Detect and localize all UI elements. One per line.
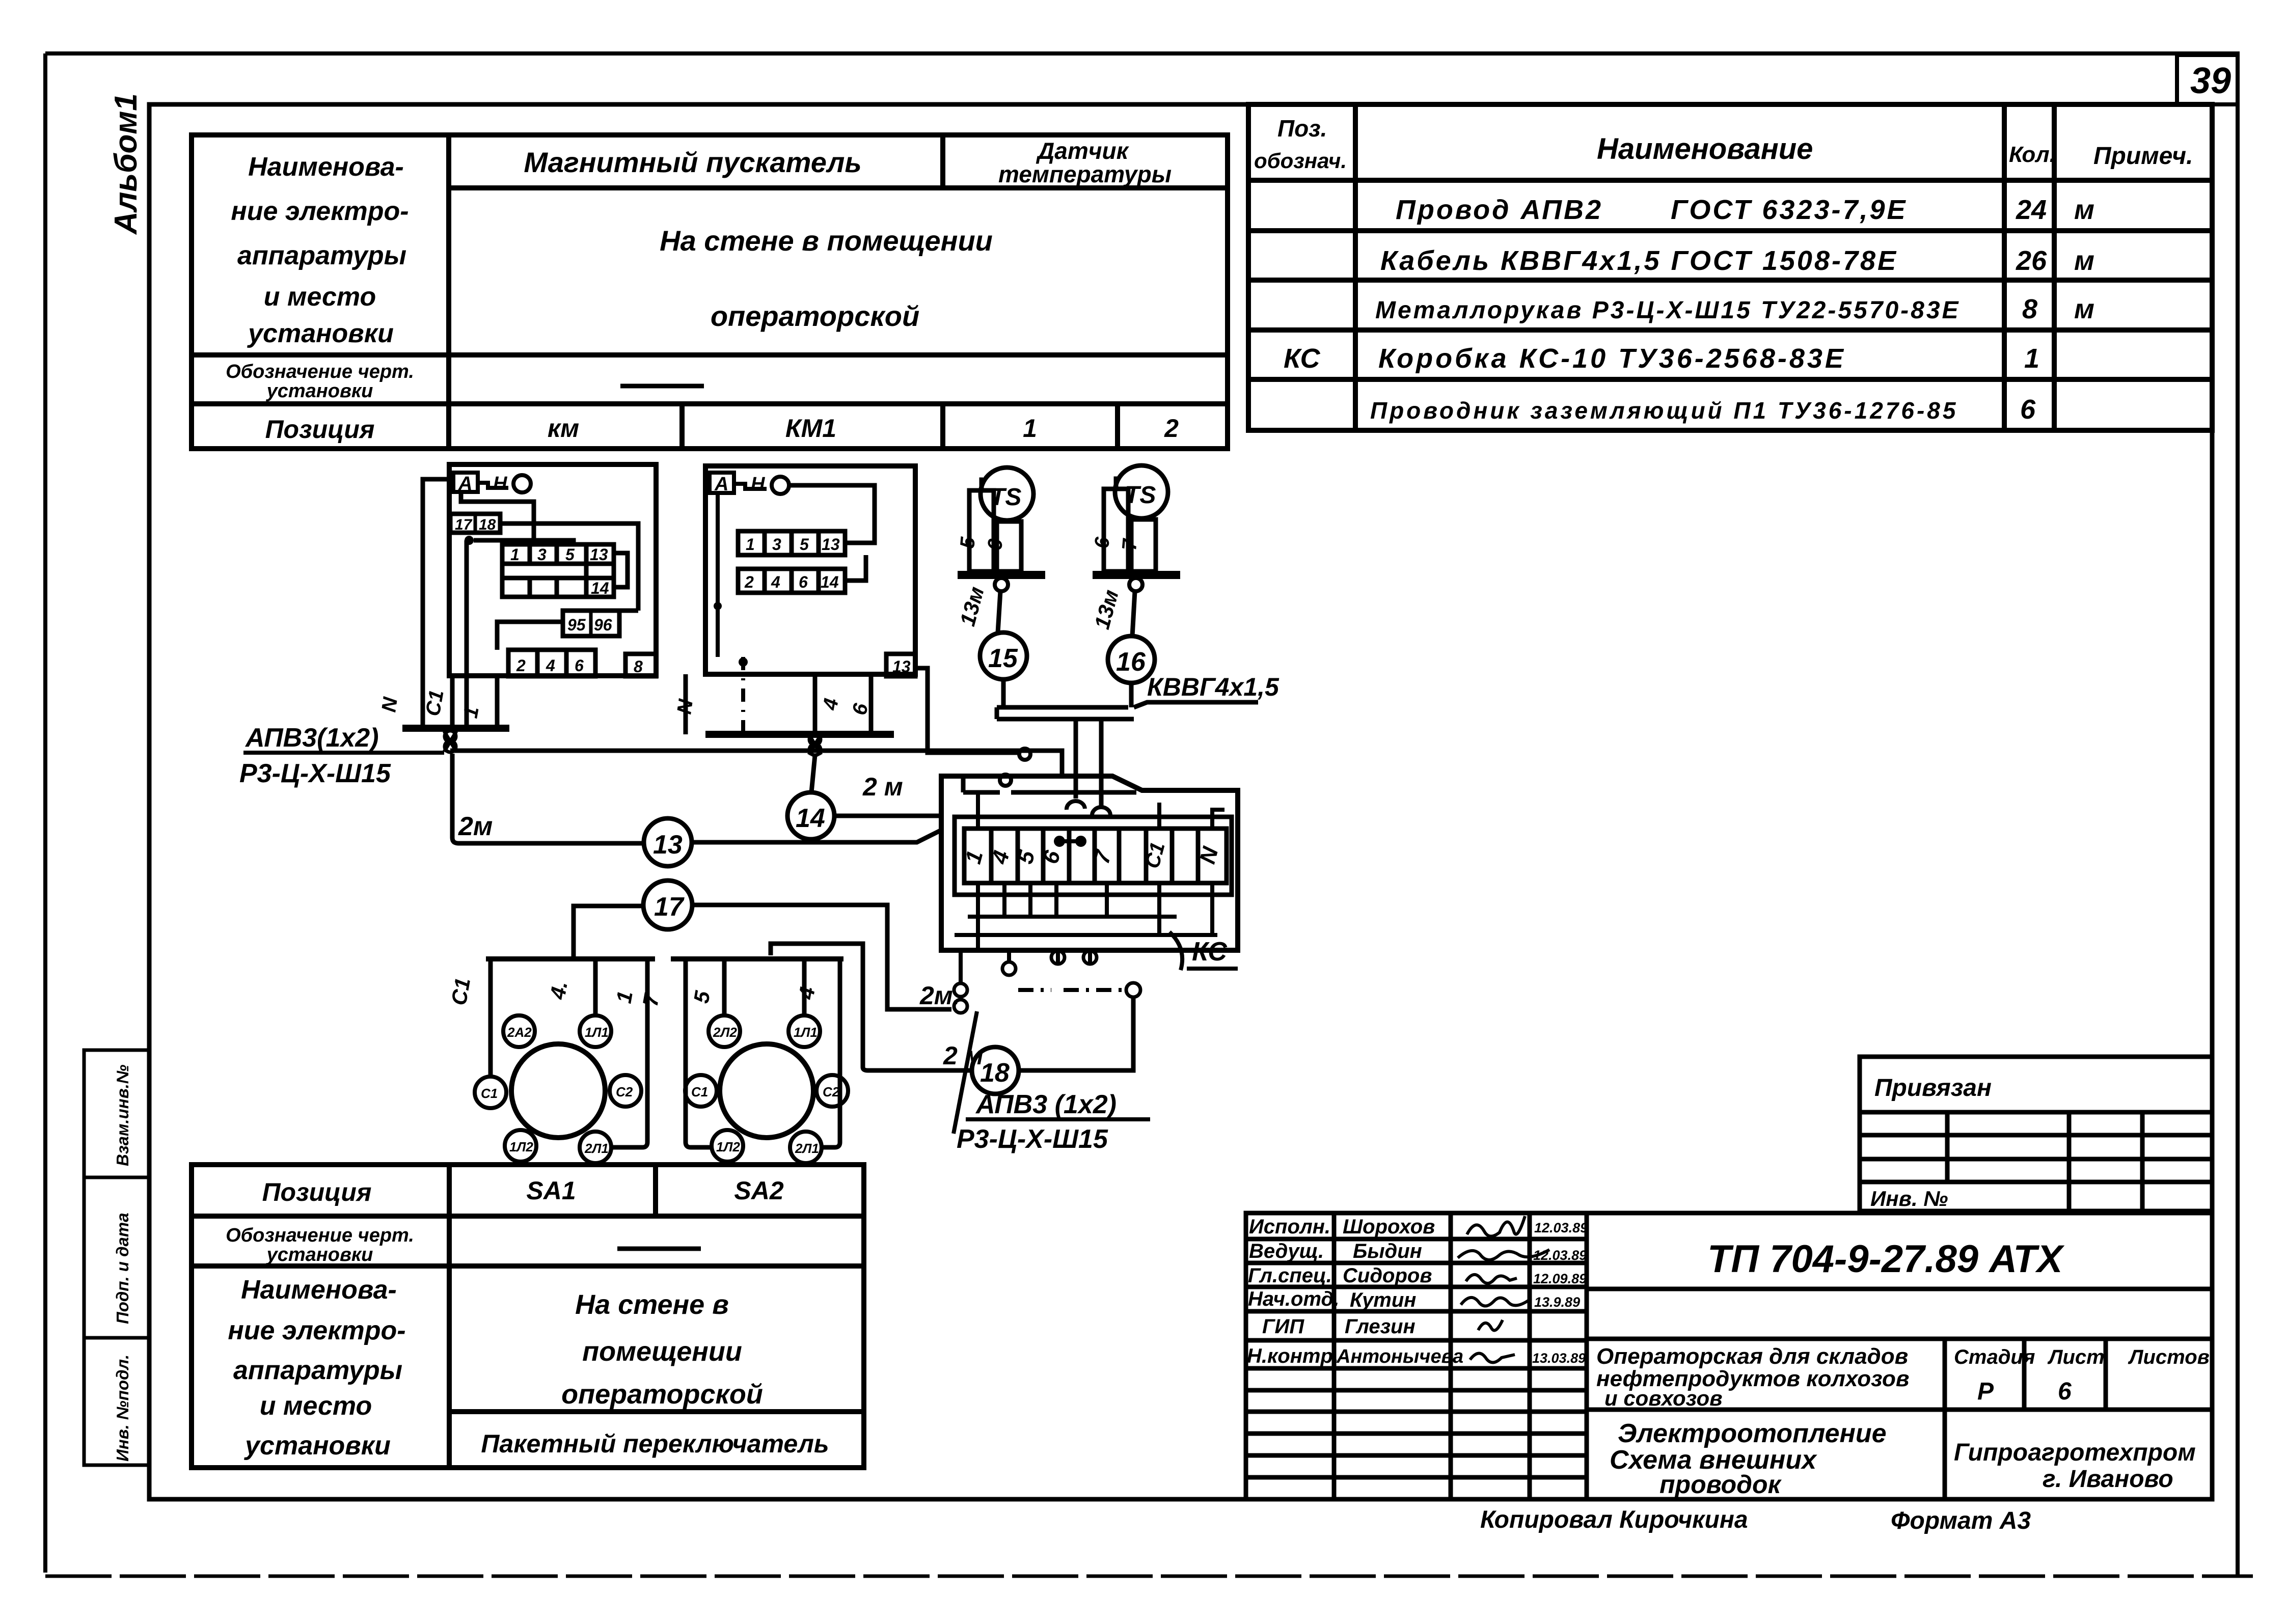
svg-text:13: 13 (590, 545, 608, 564)
svg-text:Р: Р (1977, 1378, 1994, 1405)
svg-text:КС: КС (1284, 343, 1320, 374)
svg-text:13: 13 (822, 535, 840, 554)
svg-text:2: 2 (744, 573, 754, 591)
terminal C1 (SA2) (685, 1075, 717, 1107)
svg-text:Операторская для складов: Операторская для складов (1596, 1344, 1908, 1369)
svg-text:4: 4 (771, 573, 780, 591)
terminal 2L1 (SA2) (790, 1132, 822, 1163)
svg-text:2: 2 (516, 656, 526, 675)
svg-text:Электроотопление: Электроотопление (1618, 1419, 1887, 1448)
wire (drop to marker 13) (452, 754, 644, 843)
svg-text:установки: установки (247, 319, 394, 348)
temperature sensor TS1 (981, 467, 1033, 520)
svg-text:г. Иваново: г. Иваново (2043, 1466, 2173, 1493)
svg-text:Инв. №подл.: Инв. №подл. (113, 1355, 132, 1462)
svg-text:Н: Н (751, 474, 766, 495)
svg-text:и место: и место (260, 1391, 372, 1421)
svg-text:Глезин: Глезин (1345, 1315, 1416, 1338)
svg-text:6: 6 (2058, 1378, 2072, 1405)
svg-text:Н: Н (493, 473, 508, 494)
svg-text:АПВ3 (1х2): АПВ3 (1х2) (975, 1090, 1117, 1119)
svg-text:проводок: проводок (1659, 1470, 1782, 1499)
svg-text:Лист: Лист (2047, 1346, 2105, 1368)
wire 13m (TS2 down) (1132, 591, 1135, 636)
svg-text:Инв. №: Инв. № (1870, 1187, 1948, 1210)
svg-text:Антонычева: Антонычева (1336, 1346, 1463, 1367)
wire (16 down) (1129, 683, 1134, 707)
terminal cell 8 (KM) (625, 654, 656, 676)
svg-text:14: 14 (796, 804, 825, 833)
svg-text:установки: установки (266, 1244, 373, 1265)
cable label APV3(1x2) R3-C-X-Sh15 (left) (239, 723, 444, 788)
svg-text:Кабель КВВГ4х1,5 ГОСТ 1508-78: Кабель КВВГ4х1,5 ГОСТ 1508-78Е (1380, 245, 1898, 276)
wire (13 to junction box) (692, 830, 941, 842)
svg-text:Датчик: Датчик (1036, 137, 1130, 164)
wire (14 to junction box) (834, 814, 941, 818)
svg-text:12.09.89: 12.09.89 (1533, 1271, 1587, 1286)
svg-text:Металлорукав Р3-Ц-Х-Ш15 ТУ22-5: Металлорукав Р3-Ц-Х-Ш15 ТУ22-5570-83Е (1375, 297, 1961, 324)
terminal strip 1-3-5-13 (KM1) (738, 531, 845, 555)
magnetic starter KM enclosure (449, 464, 656, 676)
marker 14 (wire run) (787, 792, 834, 839)
wire (KM1 drops to bus) (684, 674, 688, 734)
terminal strip 2-4-6 (KM) (508, 650, 595, 676)
svg-text:1: 1 (1023, 414, 1037, 443)
svg-text:С2: С2 (616, 1084, 633, 1099)
wire (SA2 drop 5) (722, 959, 727, 1014)
jumper (KC strip 6-7) (1056, 838, 1084, 845)
svg-text:м: м (2074, 195, 2094, 225)
wire (18 run left stub) (868, 1068, 972, 1073)
svg-text:А: А (714, 474, 728, 495)
node (KM internal) (465, 536, 474, 545)
wire (lamp to strip, KM1) (789, 485, 875, 543)
terminal A (KM) (453, 473, 478, 494)
junction box KC outline (941, 776, 1238, 950)
svg-text:обознач.: обознач. (1254, 149, 1347, 173)
svg-text:Взам.инв.№: Взам.инв.№ (113, 1064, 132, 1166)
jumper dash (KC bottom left) (1018, 988, 1051, 992)
svg-text:и место: и место (264, 282, 376, 312)
marker 17 (wire run) (643, 880, 692, 929)
terminal strip outline (KC) (955, 817, 1232, 895)
svg-text:39: 39 (2190, 61, 2231, 101)
svg-text:Пакетный переключатель: Пакетный переключатель (481, 1429, 829, 1458)
cable label APV3(1x2) at 18 (957, 1090, 1150, 1154)
cell labels (KC strip) (961, 840, 1223, 871)
wire (15 down) (1001, 679, 1006, 707)
svg-text:2А2: 2А2 (507, 1025, 532, 1040)
svg-text:13: 13 (892, 657, 911, 676)
conduit stub 6 (TS1) (997, 521, 1021, 571)
wire (drops into junction box) (1074, 719, 1078, 799)
wire (stub t3-t4) (1058, 950, 1090, 964)
terminal (KC bottom t4) (1083, 951, 1097, 964)
terminal 2L2 (SA2) (709, 1015, 740, 1047)
svg-text:2 м: 2 м (862, 773, 903, 801)
wire (SA1 top bus) (486, 956, 655, 961)
svg-text:13.9.89: 13.9.89 (1534, 1295, 1580, 1310)
wire (node to strip) (474, 540, 574, 544)
svg-text:Листов: Листов (2128, 1346, 2210, 1368)
svg-text:Магнитный пускатель: Магнитный пускатель (524, 146, 861, 178)
svg-text:24: 24 (2016, 195, 2047, 225)
leader line (cable callout) (954, 1011, 977, 1134)
terminal A (KM1) (710, 473, 734, 495)
svg-text:17: 17 (455, 516, 473, 533)
svg-text:ТS: ТS (990, 484, 1021, 511)
svg-text:Обозначение черт.: Обозначение черт. (226, 1225, 414, 1246)
terminal N (KM) (478, 473, 508, 494)
svg-text:Формат А3: Формат А3 (1891, 1507, 2031, 1534)
svg-text:С1: С1 (422, 689, 448, 718)
svg-text:Гипроагротехпром: Гипроагротехпром (1954, 1439, 2196, 1466)
terminal (KC bottom t1) (954, 983, 967, 1013)
svg-text:Гл.спец.: Гл.спец. (1248, 1264, 1332, 1287)
marker 15 (wire run) (980, 632, 1027, 679)
cable KVVG header run (997, 702, 1258, 719)
svg-text:6: 6 (575, 656, 584, 675)
svg-text:5: 5 (565, 545, 575, 564)
svg-text:2Л2: 2Л2 (713, 1025, 737, 1040)
svg-text:6: 6 (984, 538, 1007, 552)
terminal strip 1-3-5-13 / 14 (KM) (502, 544, 614, 597)
svg-text:4: 4 (546, 656, 555, 675)
svg-text:6: 6 (1091, 536, 1114, 549)
wire (SA1 left drop C1) (488, 959, 493, 1076)
svg-text:5: 5 (956, 536, 979, 549)
wire (KM internal top) (461, 492, 534, 544)
temperature sensor TS2 (1115, 465, 1168, 518)
svg-text:м: м (2074, 245, 2094, 276)
svg-text:14: 14 (821, 573, 839, 591)
svg-text:ТП 704-9-27.89 АТХ: ТП 704-9-27.89 АТХ (1707, 1237, 2065, 1281)
svg-text:17: 17 (654, 892, 685, 922)
wire (SA1 right drop 1) (612, 959, 647, 1147)
svg-text:18: 18 (479, 516, 496, 533)
svg-text:1Л2: 1Л2 (509, 1139, 533, 1154)
svg-text:Коробка КС-10 ТУ36-2568-83Е: Коробка КС-10 ТУ36-2568-83Е (1378, 343, 1846, 374)
conduit stub 6 (TS2) (1104, 489, 1128, 571)
svg-text:ние электро-: ние электро- (228, 1316, 405, 1345)
terminal (TS1 below wall) (995, 578, 1008, 591)
svg-text:Нач.отд.: Нач.отд. (1248, 1288, 1339, 1310)
svg-text:КВВГ4х1,5: КВВГ4х1,5 (1147, 673, 1280, 701)
svg-text:Альбом1: Альбом1 (108, 93, 144, 235)
svg-text:С1: С1 (691, 1084, 708, 1099)
svg-text:12.03.89: 12.03.89 (1534, 1220, 1588, 1235)
bus bar (KM1) (705, 731, 894, 738)
svg-text:3: 3 (537, 545, 547, 564)
terminal 1L2 (SA1) (505, 1130, 536, 1162)
svg-text:SA1: SA1 (526, 1176, 576, 1205)
svg-text:6: 6 (799, 573, 808, 591)
svg-text:Наименова-: Наименова- (241, 1275, 397, 1305)
conduit stub 7 (TS2) (1131, 519, 1156, 571)
wire (18 to KC) (1019, 997, 1133, 1070)
svg-text:13: 13 (653, 830, 683, 860)
svg-text:Обозначение черт.: Обозначение черт. (226, 361, 414, 382)
svg-text:1: 1 (746, 535, 755, 554)
conduit stub 5 (TS1) (969, 490, 994, 571)
svg-text:18: 18 (980, 1058, 1010, 1088)
svg-text:КМ1: КМ1 (785, 414, 836, 443)
signature squiggles (1458, 1216, 1549, 1363)
svg-text:Ведущ.: Ведущ. (1249, 1240, 1324, 1262)
svg-text:2Л1: 2Л1 (584, 1141, 609, 1156)
terminal C2 (SA1) (610, 1075, 641, 1107)
svg-text:операторской: операторской (561, 1379, 763, 1410)
terminal strip cells (KC) (964, 829, 1227, 883)
wire (SA2 feed to 18 run) (771, 944, 868, 1070)
wire (SA2 drop 1L1) (802, 959, 807, 1014)
wire (TS2 hook) (1116, 479, 1118, 489)
lamp HL (KM) (513, 475, 531, 492)
svg-text:Провод АПВ2 ГОСТ 6323-7,: Провод АПВ2 ГОСТ 6323-7,9Е (1396, 195, 1908, 225)
terminal strip 2-4-6-14 (KM1) (738, 569, 845, 593)
wire (strip rows connector, KM1) (845, 555, 866, 581)
terminal 2L1 (SA1) (580, 1132, 611, 1163)
svg-text:Позиция: Позиция (265, 415, 375, 444)
svg-text:установки: установки (243, 1431, 391, 1461)
terminal (KC bottom t5) (1126, 983, 1140, 997)
terminal 2L2 (SA1) (503, 1015, 535, 1047)
wire (main run to junction box) (450, 751, 1062, 776)
svg-text:Стадия: Стадия (1954, 1346, 2035, 1368)
svg-text:и совхозов: и совхозов (1604, 1386, 1723, 1410)
svg-text:8: 8 (634, 657, 643, 676)
svg-text:14: 14 (591, 579, 609, 597)
svg-text:Позиция: Позиция (262, 1178, 372, 1206)
terminal C1 (SA1) (475, 1077, 506, 1108)
svg-text:2 м: 2 м (943, 1041, 984, 1070)
wire (17-18 to right) (500, 524, 638, 611)
wire 13m (TS1 down) (998, 591, 1000, 632)
svg-text:Шорохов: Шорохов (1343, 1216, 1435, 1238)
svg-text:15: 15 (988, 644, 1018, 673)
wire (A drop, KM1) (716, 493, 720, 657)
terminal 1L1 (SA2) (788, 1015, 820, 1047)
packet switch SA1 (511, 1044, 605, 1138)
svg-text:Сидоров: Сидоров (1343, 1264, 1432, 1287)
terminal block 95-96 (KM) (563, 611, 619, 636)
terminal N (KM1) (734, 474, 767, 495)
terminal 1L2 (SA2) (712, 1130, 743, 1162)
terminal 1L1 (SA1) (580, 1015, 611, 1047)
wire (KM internal verticals to bus) (465, 540, 469, 728)
sleeve terminal X2 (809, 734, 821, 755)
svg-text:С1: С1 (447, 976, 475, 1007)
wire (17 to junction box) (692, 905, 951, 1009)
svg-text:13.03.89: 13.03.89 (1532, 1351, 1586, 1366)
wire (strip drops, KC) (955, 883, 1217, 950)
svg-text:С2: С2 (823, 1084, 840, 1099)
left margin stamp boxes (84, 1050, 149, 1465)
wall bar (TS1) (958, 571, 1045, 579)
jumper dash (KC bottom right) (1064, 988, 1126, 992)
svg-text:Р3-Ц-Х-Ш15: Р3-Ц-Х-Ш15 (957, 1124, 1108, 1154)
svg-text:Привязан: Привязан (1874, 1075, 1992, 1102)
svg-text:ГИП: ГИП (1262, 1315, 1304, 1338)
packet switch SA2 (720, 1044, 813, 1138)
terminal (KC bottom t2) (1002, 962, 1016, 975)
svg-text:операторской: операторской (711, 300, 919, 332)
svg-text:аппаратуры: аппаратуры (233, 1356, 402, 1385)
wire (strip right connector) (614, 553, 628, 587)
svg-text:ТS: ТS (1125, 482, 1156, 509)
svg-text:95: 95 (567, 616, 586, 634)
marker 18 (wire run) (972, 1047, 1019, 1094)
svg-text:1: 1 (2024, 343, 2039, 374)
terminal block 17-18 (KM) (450, 514, 500, 533)
sheet number box 39 (2177, 55, 2238, 104)
magnetic starter KM1 enclosure (705, 466, 915, 674)
svg-text:Исполн.: Исполн. (1249, 1216, 1330, 1238)
svg-text:3: 3 (772, 535, 781, 554)
terminal (KC inner a) (1019, 749, 1030, 760)
svg-text:Проводник заземляющий П1 ТУ36-: Проводник заземляющий П1 ТУ36-1276-85 (1370, 397, 1958, 424)
svg-text:помещении: помещении (582, 1336, 742, 1367)
svg-text:Поз.: Поз. (1277, 115, 1327, 142)
wire (KM1 feed into KC) (915, 668, 1019, 753)
svg-text:Наименование: Наименование (1597, 132, 1813, 166)
svg-text:Примеч.: Примеч. (2093, 143, 2193, 170)
marker 16 (wire run) (1108, 636, 1155, 683)
svg-text:Р3-Ц-Х-Ш15: Р3-Ц-Х-Ш15 (239, 759, 391, 788)
svg-text:5: 5 (800, 535, 809, 554)
wall bar (TS2) (1093, 571, 1180, 579)
wire (SA2 right drop 4) (822, 959, 840, 1147)
svg-text:установки: установки (266, 380, 373, 402)
svg-text:Быдин: Быдин (1353, 1240, 1422, 1262)
wire (KM left outside drop) (423, 479, 449, 728)
terminal C2 (SA2) (817, 1075, 848, 1107)
wire (95-96 to lower strip) (497, 622, 563, 650)
wire (SA2 left drop) (686, 959, 711, 1147)
svg-text:26: 26 (2016, 245, 2047, 276)
sleeve terminal X1 (444, 731, 456, 752)
svg-text:Кол.: Кол. (2009, 142, 2056, 167)
hook terminals (box entries) (1067, 801, 1085, 810)
svg-text:1Л1: 1Л1 (794, 1025, 818, 1040)
svg-text:2Л1: 2Л1 (795, 1141, 819, 1156)
terminal cell (KM1 right) (886, 654, 915, 676)
svg-text:SA2: SA2 (734, 1176, 783, 1205)
svg-text:Копировал Кирочкина: Копировал Кирочкина (1480, 1506, 1748, 1533)
svg-text:2м: 2м (458, 812, 493, 841)
svg-text:1: 1 (510, 545, 520, 564)
bus bar (KM) (402, 725, 509, 732)
wire (SA2 top bus) (671, 956, 843, 961)
svg-text:Подп. и дата: Подп. и дата (113, 1213, 132, 1324)
terminal (TS2 below wall) (1129, 578, 1142, 591)
svg-text:1Л2: 1Л2 (716, 1139, 740, 1154)
wire (TS1 hook) (982, 480, 983, 490)
svg-text:16: 16 (1116, 647, 1146, 677)
terminal (KC bottom t3) (1051, 951, 1065, 964)
svg-text:С1: С1 (481, 1086, 498, 1101)
label KC with leader (1169, 932, 1238, 970)
wire (SA1 drop 4) (593, 959, 598, 1014)
wire (stub t1) (959, 950, 963, 983)
svg-text:аппаратуры: аппаратуры (237, 241, 406, 270)
wire (stub t2) (1007, 950, 1011, 962)
marker 13 (wire run) (644, 818, 692, 866)
svg-text:На стене в: На стене в (575, 1289, 729, 1320)
svg-text:1Л1: 1Л1 (585, 1025, 609, 1040)
svg-text:2: 2 (1164, 414, 1179, 443)
svg-text:8: 8 (2022, 294, 2037, 324)
wire (strip risers, KC) (978, 792, 1224, 829)
svg-text:Наименова-: Наименова- (248, 152, 404, 182)
wire (X2 to marker 14) (811, 755, 815, 792)
svg-text:А: А (458, 473, 472, 494)
wire (right drop to 95-96) (619, 609, 638, 613)
svg-text:На стене в помещении: На стене в помещении (660, 225, 993, 257)
wire (17 run) (574, 906, 644, 959)
wire (KC inner cross) (963, 776, 1136, 792)
svg-text:АПВ3(1х2): АПВ3(1х2) (244, 723, 379, 753)
svg-text:м: м (2074, 294, 2094, 324)
svg-text:6: 6 (2020, 394, 2036, 425)
svg-text:Кутин: Кутин (1350, 1289, 1416, 1311)
terminal (KC inner b) (1000, 775, 1011, 786)
svg-text:км: км (548, 414, 579, 443)
svg-text:Н.контр.: Н.контр. (1247, 1345, 1339, 1367)
svg-text:температуры: температуры (998, 161, 1172, 187)
svg-text:ние электро-: ние электро- (231, 197, 409, 226)
inner drawing frame (149, 104, 2212, 1499)
svg-text:КС: КС (1192, 937, 1228, 967)
svg-text:96: 96 (594, 616, 612, 634)
lamp HL (KM1) (772, 477, 789, 494)
